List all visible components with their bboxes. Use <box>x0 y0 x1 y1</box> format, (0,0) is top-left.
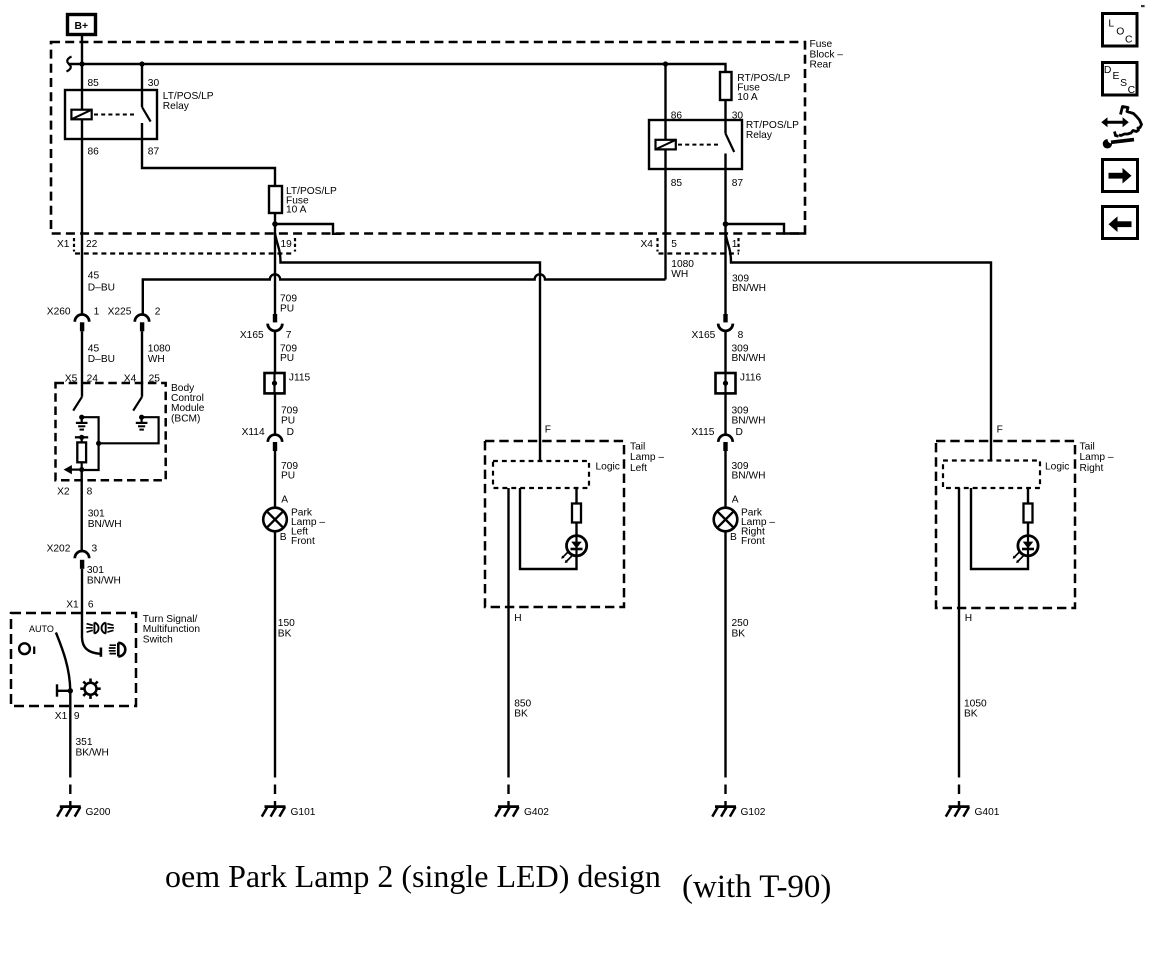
wire branch into block border (internal feed) <box>275 224 341 234</box>
svg-text:G101: G101 <box>291 807 316 818</box>
svg-text:9: 9 <box>74 711 80 722</box>
svg-text:X2: X2 <box>57 487 70 498</box>
svg-text:250: 250 <box>732 618 749 629</box>
svg-text:X260: X260 <box>47 307 71 318</box>
connector X225 pin 2 <box>108 307 161 332</box>
svg-text:BN/WH: BN/WH <box>88 519 122 530</box>
wire X1-6 into switch common <box>82 638 100 654</box>
svg-text:BK: BK <box>732 629 746 640</box>
node BCM left output <box>79 415 84 420</box>
BCM right driver switch blade <box>133 397 142 411</box>
svg-text:BK: BK <box>514 709 528 720</box>
svg-text:X4: X4 <box>641 239 654 250</box>
ground G402 <box>495 768 549 818</box>
wire X1-19 slant to tail lamp feed <box>275 234 540 462</box>
connector X1 pin 6 labels <box>66 600 94 611</box>
svg-text:1080: 1080 <box>148 344 171 355</box>
park lamp left front bulb <box>263 508 287 532</box>
logic module right dashed box <box>943 461 1040 489</box>
BCM internal cross wire <box>99 417 159 443</box>
connector X165 pin 7 <box>240 314 292 341</box>
wire coil pin 86 <box>664 64 666 140</box>
icon next-page button (right arrow) <box>1103 160 1138 192</box>
svg-text:X114: X114 <box>242 427 265 438</box>
LED loop left <box>520 488 577 569</box>
svg-text:D: D <box>1104 65 1112 76</box>
svg-text:E: E <box>1113 71 1120 82</box>
svg-text:10 A: 10 A <box>737 92 758 103</box>
relay LT/POS/LP box <box>65 90 157 139</box>
svg-text:30: 30 <box>732 111 744 122</box>
label 709 PU upper <box>280 294 297 315</box>
svg-text:X225: X225 <box>108 307 132 318</box>
svg-text:G402: G402 <box>524 807 549 818</box>
svg-text:6: 6 <box>88 600 94 611</box>
svg-text:A: A <box>281 495 288 506</box>
resistor tail lamp right <box>1024 504 1033 523</box>
wire 709 PU to park lamp <box>274 451 276 508</box>
ground G101 <box>262 768 316 818</box>
svg-text:X165: X165 <box>692 330 716 341</box>
wire 45 D-BU to BCM <box>81 331 83 397</box>
label 709 PU <box>281 406 298 427</box>
dashed actuation link <box>678 144 719 146</box>
label Park Lamp - Right Front <box>741 507 775 547</box>
svg-text:45: 45 <box>88 344 100 355</box>
svg-text:Front: Front <box>291 536 315 547</box>
splice J116 <box>716 373 762 394</box>
connector X202 pin 3 <box>47 544 98 569</box>
wire pin30 into switch <box>141 64 143 107</box>
connector X260 pin 1 <box>47 307 100 332</box>
label LT/POS/LP Relay <box>163 91 214 112</box>
icon prev-page button (left arrow) <box>1103 207 1138 239</box>
svg-text:30: 30 <box>148 78 160 89</box>
connector X1 pin 9 labels <box>55 711 80 722</box>
svg-text:X165: X165 <box>240 330 264 341</box>
svg-text:5: 5 <box>671 239 677 250</box>
label 309 BN/WH <box>732 344 766 365</box>
wire 309 BN/WH to park lamp <box>724 451 726 508</box>
svg-text:G401: G401 <box>975 807 1000 818</box>
label 850 BK <box>514 699 531 720</box>
svg-text:Lamp –: Lamp – <box>630 452 664 463</box>
svg-text:(BCM): (BCM) <box>171 414 200 425</box>
label 309 BN/WH <box>732 461 766 482</box>
ground G200 <box>57 768 111 818</box>
tiny page mark top-right <box>1141 5 1145 7</box>
label 1050 BK <box>964 699 987 720</box>
tail lamp right dashed enclosure <box>936 441 1075 608</box>
label RT/POS/LP Fuse 10 A <box>737 73 790 103</box>
arrow internal output <box>64 465 82 474</box>
wire 709 PU to J115 <box>274 331 276 373</box>
wire 309 BN/WH to X115 <box>724 393 726 435</box>
svg-text:Multifunction: Multifunction <box>143 624 200 635</box>
svg-text:351: 351 <box>76 737 93 748</box>
label 709 PU <box>281 461 298 482</box>
svg-text:Relay: Relay <box>746 130 773 141</box>
svg-text:45: 45 <box>88 271 100 282</box>
wire pin86 down (45 D-BU) through X1-22 <box>81 119 83 314</box>
label 709 PU <box>280 344 297 365</box>
svg-text:X1: X1 <box>55 711 68 722</box>
wire resistor to LED <box>1027 523 1029 537</box>
park lamp right front bulb <box>714 508 738 532</box>
svg-text:86: 86 <box>671 111 683 122</box>
turn signal / multifunction switch dashed enclosure <box>11 613 136 706</box>
svg-text:BN/WH: BN/WH <box>732 416 766 427</box>
connector X4 row <box>641 238 740 254</box>
BCM internal ground right <box>136 417 148 429</box>
label 351 BK/WH <box>76 737 109 759</box>
svg-text:Module: Module <box>171 403 205 414</box>
label LT/POS/LP Fuse 10 A <box>286 186 337 216</box>
wire coil pin85 down (1080 WH) through X4-5 <box>664 149 666 279</box>
label 301 BN/WH lower <box>87 565 121 587</box>
svg-text:BN/WH: BN/WH <box>732 353 766 364</box>
svg-text:10 A: 10 A <box>286 205 307 216</box>
svg-text:BN/WH: BN/WH <box>87 576 121 587</box>
svg-text:PU: PU <box>281 471 295 482</box>
wire branch into block border (internal feed) <box>726 224 806 234</box>
label Body Control Module (BCM) <box>171 383 205 425</box>
wire 709 PU to X114 <box>274 393 276 435</box>
wire 301 BN/WH to switch <box>81 569 83 638</box>
logic module left dashed box <box>493 461 589 488</box>
svg-text:22: 22 <box>86 239 98 250</box>
node at B+ drop <box>79 61 84 66</box>
label 45 D-BU upper <box>88 271 115 294</box>
svg-text:Fuse: Fuse <box>810 39 833 50</box>
off contact <box>57 684 70 696</box>
LED loop right <box>971 488 1028 569</box>
connector X114 pin D <box>242 427 294 451</box>
svg-text:85: 85 <box>88 78 100 89</box>
svg-text:D–BU: D–BU <box>88 354 115 365</box>
svg-text:WH: WH <box>148 354 165 365</box>
wire logic to resistor <box>1027 488 1029 504</box>
svg-text:D–BU: D–BU <box>88 283 115 294</box>
svg-text:Right: Right <box>1080 463 1104 474</box>
wire pin87 to LT fuse <box>142 123 275 186</box>
fuse block rear dashed enclosure <box>51 42 805 234</box>
svg-text:BK: BK <box>964 709 978 720</box>
relay coil RT <box>656 140 676 150</box>
wire B+ bus across fuse block <box>68 64 726 72</box>
icon schematic-navigate (double arrow, outline, wrench) <box>1101 107 1141 149</box>
LED right <box>1013 536 1039 564</box>
svg-text:J115: J115 <box>289 373 311 384</box>
switch knob indicator <box>19 643 34 654</box>
wire 1080 WH run from X4-5 to X225-2 (hops two wires) <box>143 274 666 314</box>
label Tail Lamp - Left <box>630 441 664 474</box>
wire 309 BN/WH main drop (right park lamp feed) <box>724 234 726 315</box>
svg-text:A: A <box>732 495 739 506</box>
ground G102 <box>712 768 765 818</box>
icon LOC button <box>1103 14 1138 47</box>
contact tick <box>100 648 103 657</box>
svg-text:AUTO: AUTO <box>29 624 54 634</box>
svg-text:Relay: Relay <box>163 101 190 112</box>
connector X2 pin 8 labels <box>57 487 93 498</box>
svg-text:Logic: Logic <box>596 461 620 472</box>
label Tail Lamp - Right <box>1080 441 1114 474</box>
svg-text:Lamp –: Lamp – <box>1080 452 1114 463</box>
svg-text:Switch: Switch <box>143 635 173 646</box>
svg-text:(with T-90): (with T-90) <box>682 869 831 905</box>
wire resistor to LED <box>575 523 577 537</box>
BCM internal ground left <box>76 417 88 429</box>
node wiper output <box>68 688 73 693</box>
svg-text:8: 8 <box>87 487 93 498</box>
label 250 BK <box>732 618 749 640</box>
svg-text:Logic: Logic <box>1045 461 1069 472</box>
wire pin30 from fuse into switch <box>724 100 726 134</box>
svg-text:2: 2 <box>155 307 161 318</box>
svg-text:J116: J116 <box>740 373 762 384</box>
svg-text:1: 1 <box>732 239 738 250</box>
LED left <box>561 536 587 564</box>
svg-text:C: C <box>1125 34 1133 45</box>
svg-text:C: C <box>1128 85 1136 96</box>
wire X4-1 slant to tail lamp feed <box>726 234 992 461</box>
wire fuse output <box>274 213 276 234</box>
svg-text:X1: X1 <box>66 600 79 611</box>
BCM sense tap bar <box>75 435 88 443</box>
node at right relay coil drop <box>663 61 668 66</box>
svg-text:87: 87 <box>732 178 744 189</box>
svg-text:BN/WH: BN/WH <box>732 471 766 482</box>
svg-text:85: 85 <box>671 178 683 189</box>
wire H output <box>507 488 509 768</box>
svg-text:B: B <box>280 532 287 543</box>
svg-text:Tail: Tail <box>630 441 645 452</box>
svg-text:S: S <box>1120 78 1127 89</box>
label Park Lamp - Left Front <box>291 507 325 547</box>
svg-text:oem Park Lamp 2 (single LED) d: oem Park Lamp 2 (single LED) design <box>165 858 661 894</box>
svg-text:PU: PU <box>280 353 294 364</box>
node at left relay pin 30 <box>139 61 144 66</box>
relay RT/POS/LP box <box>649 120 742 169</box>
svg-text:H: H <box>514 613 521 624</box>
svg-text:301: 301 <box>87 565 104 576</box>
svg-text:8: 8 <box>738 330 744 341</box>
svg-text:PU: PU <box>281 416 295 427</box>
relay switch blade <box>726 134 735 153</box>
wire 250 BK to ground <box>724 531 726 768</box>
svg-text:G200: G200 <box>86 807 111 818</box>
svg-text:H: H <box>965 613 972 624</box>
dashed actuation link <box>94 114 135 116</box>
svg-text:O: O <box>1116 26 1124 37</box>
label 309 BN/WH <box>732 406 766 427</box>
wire logic to resistor <box>575 488 577 504</box>
relay coil LT <box>71 110 91 120</box>
BCM internal wire left loop <box>82 417 99 470</box>
svg-text:301: 301 <box>88 508 105 519</box>
wire B+ down to bus <box>81 36 83 64</box>
wire 301 BN/WH from BCM <box>80 470 82 551</box>
wire 351 BK/WH down <box>69 691 71 768</box>
wire H output <box>958 488 960 768</box>
svg-text:D: D <box>736 427 743 438</box>
label 150 BK <box>278 618 295 640</box>
svg-text:BN/WH: BN/WH <box>732 283 766 294</box>
svg-text:1: 1 <box>94 307 100 318</box>
svg-text:Left: Left <box>630 463 647 474</box>
battery B+ terminal <box>68 15 96 35</box>
label Fuse Block - Rear <box>810 39 844 71</box>
connector pins X5-24 / X4-25 labels <box>65 373 160 384</box>
node internal junction <box>96 441 101 446</box>
svg-text:F: F <box>997 425 1003 436</box>
label 309 BN/WH upper <box>732 274 766 295</box>
svg-text:X115: X115 <box>691 427 714 438</box>
headlamp position icon <box>109 643 126 657</box>
svg-text:F: F <box>545 425 551 436</box>
connector X115 pin D <box>691 427 742 451</box>
panel dim icon (gear) <box>80 679 100 699</box>
BCM dashed enclosure <box>56 383 166 480</box>
svg-text:Rear: Rear <box>810 60 833 71</box>
svg-text:D: D <box>287 427 294 438</box>
svg-text:X202: X202 <box>47 544 71 555</box>
wire pin87 down <box>724 154 726 234</box>
relay switch blade <box>142 107 151 122</box>
svg-text:19: 19 <box>281 239 293 250</box>
connector X1 row <box>57 238 295 254</box>
ground G401 <box>946 768 1000 818</box>
wire resistor to output node <box>81 462 83 469</box>
svg-text:7: 7 <box>286 330 292 341</box>
node BCM output <box>79 467 84 472</box>
wire 1080 WH to BCM <box>141 331 143 397</box>
svg-text:PU: PU <box>280 303 294 314</box>
node BCM right output <box>139 415 144 420</box>
svg-text:Tail: Tail <box>1080 441 1095 452</box>
svg-text:87: 87 <box>148 146 160 157</box>
label 1080 WH lower <box>148 344 171 366</box>
wire continuation break symbol <box>67 57 72 72</box>
wire pin85 into coil <box>81 64 83 110</box>
svg-text:BK: BK <box>278 629 292 640</box>
svg-text:BK/WH: BK/WH <box>76 748 109 759</box>
fuse RT/POS/LP 10A <box>720 72 732 100</box>
svg-text:Front: Front <box>741 536 765 547</box>
svg-text:X1: X1 <box>57 239 70 250</box>
label 45 D-BU lower <box>88 344 115 366</box>
label Turn Signal/Multifunction Switch <box>143 614 200 646</box>
fuse LT/POS/LP 10A <box>269 186 282 213</box>
svg-text:WH: WH <box>671 269 688 280</box>
wire 309 BN/WH to J116 <box>724 331 726 373</box>
svg-text:L: L <box>1108 18 1114 29</box>
wire 709 PU main drop (left park lamp feed) <box>274 234 276 315</box>
resistor BCM internal <box>77 442 86 462</box>
wire 150 BK to ground <box>274 531 276 768</box>
svg-text:G102: G102 <box>741 807 766 818</box>
svg-text:B+: B+ <box>75 21 89 32</box>
node pin87 branch <box>723 221 729 227</box>
label 301 BN/WH upper <box>88 508 122 530</box>
parking lamp position icon <box>86 623 114 634</box>
svg-text:3: 3 <box>92 544 98 555</box>
BCM left driver switch blade <box>73 397 82 411</box>
svg-text:150: 150 <box>278 618 295 629</box>
icon DESC button <box>1103 63 1138 96</box>
resistor tail lamp left <box>572 504 581 523</box>
switch wiper <box>56 633 70 691</box>
tail lamp left dashed enclosure <box>485 441 624 607</box>
connector X165 pin 8 <box>692 314 744 341</box>
svg-text:B: B <box>730 532 737 543</box>
svg-text:86: 86 <box>88 146 100 157</box>
label 1080 WH upper <box>671 259 694 280</box>
label RT/POS/LP Relay <box>746 120 799 141</box>
node fuse output <box>272 221 278 227</box>
splice J115 <box>265 373 311 394</box>
